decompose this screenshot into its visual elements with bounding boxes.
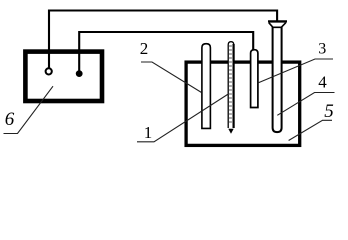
tube 3 (electrode tube, short) — [251, 50, 258, 108]
pointer line 2 — [141, 62, 202, 93]
pointer line 6 — [4, 86, 54, 133]
thermometer mercury line (right side, thicker) — [233, 44, 235, 128]
thermometer bulb — [228, 129, 233, 134]
wire from right terminal to electrode tube 3 — [79, 32, 253, 71]
power supply box 6 — [25, 52, 102, 101]
svg-text:4: 4 — [318, 73, 327, 92]
right terminal (solid) — [76, 70, 83, 77]
tank 5 (trough) — [186, 62, 300, 145]
thermometer 1 body — [228, 42, 234, 128]
svg-text:6: 6 — [5, 109, 15, 130]
wire from left terminal to funnel electrode — [49, 11, 277, 69]
svg-text:5: 5 — [324, 101, 334, 122]
funnel rim — [268, 20, 287, 22]
left terminal (open teardrop) — [46, 68, 52, 74]
svg-text:1: 1 — [144, 123, 153, 142]
pointer line 4 — [277, 93, 334, 116]
tube 2 (glass tube, left inside tank) — [202, 44, 211, 129]
pointer line 5 — [289, 120, 332, 140]
pointer line 3 — [258, 59, 333, 83]
svg-text:3: 3 — [318, 41, 326, 58]
thermometer scale ticks — [229, 46, 232, 122]
funnel flare — [269, 23, 286, 28]
svg-text:2: 2 — [140, 39, 149, 58]
tube 4 stem (U-bottom tube under funnel top) — [273, 27, 282, 132]
pointer line 1 — [137, 94, 228, 142]
